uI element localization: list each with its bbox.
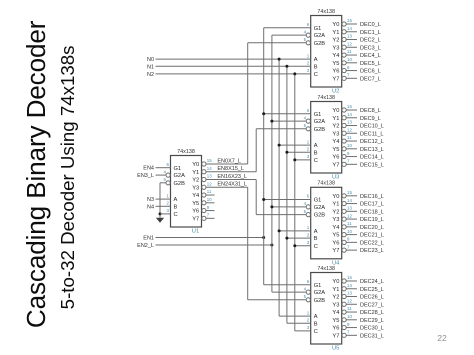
svg-text:Y5: Y5: [332, 318, 339, 324]
svg-text:B: B: [174, 204, 178, 210]
wire EN2_L to U2.G2A: [272, 34, 306, 36]
inversion bubble on Y7 of U1: [202, 216, 206, 220]
svg-text:14: 14: [347, 26, 352, 31]
inversion bubble on Y5 of U2: [342, 61, 346, 65]
junction N2 / U4.C: [293, 244, 296, 247]
svg-text:6: 6: [307, 194, 310, 199]
svg-text:1: 1: [307, 139, 310, 144]
svg-text:B: B: [314, 64, 318, 70]
svg-text:6: 6: [307, 279, 310, 284]
stub wire U3.Y7: [346, 163, 357, 165]
svg-text:Y7: Y7: [332, 76, 339, 82]
svg-text:DEC22_L: DEC22_L: [360, 240, 384, 246]
wire N3 to U1.A: [156, 198, 171, 200]
svg-text:2: 2: [307, 318, 310, 323]
wire EN1 to U5.G1: [264, 284, 311, 286]
wire EN1 to U3.G1: [264, 113, 311, 115]
inversion bubble on G2A of U4: [306, 205, 310, 209]
svg-text:10: 10: [347, 57, 352, 62]
svg-text:11: 11: [347, 135, 352, 140]
svg-text:N0: N0: [147, 57, 154, 63]
decoder U4 74x138: [311, 187, 342, 258]
wire EN2_L vertical bus: [271, 35, 273, 292]
decoder U3 74x138: [311, 102, 342, 174]
svg-text:Y2: Y2: [332, 124, 339, 130]
svg-text:G1: G1: [314, 198, 322, 204]
svg-text:DEC20_L: DEC20_L: [360, 225, 384, 231]
svg-text:4: 4: [163, 169, 166, 174]
svg-text:DEC13_L: DEC13_L: [360, 147, 384, 153]
inversion bubble on Y6 of U1: [202, 208, 206, 212]
svg-text:DEC24_L: DEC24_L: [360, 279, 384, 285]
wire EN16X23_L from U1.Y2: [206, 179, 256, 181]
svg-text:DEC8_L: DEC8_L: [360, 108, 381, 114]
inversion bubble on Y7 of U4: [342, 248, 346, 252]
svg-text:A: A: [314, 314, 318, 320]
wire U1.C to ground: [160, 213, 171, 215]
svg-text:6: 6: [167, 162, 170, 167]
svg-text:13: 13: [347, 34, 352, 39]
wire EN2_L horizontal: [156, 244, 272, 246]
svg-text:G2A: G2A: [314, 33, 326, 39]
svg-text:DEC28_L: DEC28_L: [360, 310, 384, 316]
svg-text:7: 7: [347, 73, 350, 78]
svg-text:A: A: [314, 143, 318, 149]
inversion bubble on Y4 of U3: [342, 139, 346, 143]
wire enable to U5.G2B: [248, 299, 307, 301]
svg-text:N4: N4: [147, 204, 154, 210]
svg-text:DEC19_L: DEC19_L: [360, 217, 384, 223]
svg-text:A: A: [174, 197, 178, 203]
stub wire U2.Y0: [346, 23, 357, 25]
svg-text:G1: G1: [314, 112, 322, 118]
inversion bubble on Y2 of U4: [342, 209, 346, 213]
svg-text:Y0: Y0: [332, 194, 339, 200]
svg-text:DEC16_L: DEC16_L: [360, 194, 384, 200]
svg-text:C: C: [314, 244, 318, 250]
junction EN2_L / bus: [270, 244, 273, 247]
svg-text:15: 15: [207, 158, 212, 163]
svg-text:3: 3: [307, 68, 310, 73]
svg-text:G2A: G2A: [314, 205, 326, 211]
svg-text:3: 3: [307, 240, 310, 245]
svg-text:DEC14_L: DEC14_L: [360, 155, 384, 161]
wire N2 to U3.C: [295, 159, 311, 161]
wire N0 to U3.A: [279, 144, 311, 146]
wire EN2_L to U3.G2A: [272, 120, 306, 122]
wire EN8X15_L from U1.Y1: [206, 171, 256, 173]
inversion bubble on Y5 of U3: [342, 147, 346, 151]
wire N0 horizontal to U2.A: [156, 58, 311, 60]
wire EN3_L to U1.G2A: [156, 174, 167, 176]
svg-text:EN4: EN4: [143, 166, 154, 172]
inversion bubble on G2B of U3: [306, 127, 310, 131]
stub wire U1.Y5: [206, 202, 215, 204]
svg-text:DEC7_L: DEC7_L: [360, 76, 381, 82]
stub wire U5.Y6: [346, 327, 357, 329]
svg-text:15: 15: [347, 104, 352, 109]
inversion bubble on Y6 of U2: [342, 68, 346, 72]
inversion bubble on Y3 of U1: [202, 185, 206, 189]
svg-text:4: 4: [304, 286, 307, 291]
wire EN1 vertical bus: [263, 28, 265, 285]
stub wire U2.Y2: [346, 39, 357, 41]
svg-text:DEC6_L: DEC6_L: [360, 69, 381, 75]
wire N2 to U4.C: [295, 245, 311, 247]
inversion bubble on G2B of U2: [306, 41, 310, 45]
svg-text:4: 4: [304, 201, 307, 206]
svg-text:7: 7: [347, 159, 350, 164]
inversion bubble on G2B of U5: [306, 298, 310, 302]
svg-text:DEC9_L: DEC9_L: [360, 116, 381, 122]
svg-text:DEC11_L: DEC11_L: [360, 131, 383, 137]
svg-text:Y5: Y5: [332, 61, 339, 67]
svg-text:Y1: Y1: [332, 116, 339, 122]
wire N1 vertical bus: [286, 66, 288, 323]
svg-text:9: 9: [347, 151, 350, 156]
stub wire U4.Y0: [346, 195, 357, 197]
svg-text:EN1: EN1: [143, 236, 154, 242]
svg-text:Y0: Y0: [332, 22, 339, 28]
stub wire U2.Y6: [346, 70, 357, 72]
inversion bubble on Y1 of U3: [342, 116, 346, 120]
ground symbol: [157, 218, 164, 222]
svg-text:5: 5: [304, 294, 307, 299]
svg-text:2: 2: [307, 147, 310, 152]
svg-text:12: 12: [207, 181, 212, 186]
svg-text:G2B: G2B: [314, 298, 326, 304]
svg-text:9: 9: [347, 237, 350, 242]
stub wire U5.Y7: [346, 334, 357, 336]
svg-text:12: 12: [347, 127, 352, 132]
svg-text:Y2: Y2: [192, 178, 199, 184]
svg-text:10: 10: [347, 314, 352, 319]
svg-text:4: 4: [304, 29, 307, 34]
svg-text:DEC26_L: DEC26_L: [360, 295, 384, 301]
svg-text:74x138: 74x138: [177, 149, 195, 155]
inversion bubble on Y4 of U5: [342, 310, 346, 314]
stub wire U4.Y4: [346, 226, 357, 228]
svg-text:10: 10: [347, 229, 352, 234]
svg-text:12: 12: [347, 298, 352, 303]
svg-text:Y2: Y2: [332, 295, 339, 301]
stub wire U4.Y1: [346, 203, 357, 205]
inversion bubble on Y1 of U1: [202, 170, 206, 174]
decoder U2 74x138: [311, 16, 342, 88]
svg-text:1: 1: [167, 193, 170, 198]
svg-text:EN3_L: EN3_L: [137, 173, 154, 179]
svg-text:9: 9: [207, 205, 210, 210]
inversion bubble on Y3 of U3: [342, 131, 346, 135]
svg-text:Y4: Y4: [332, 225, 339, 231]
junction N2 / U3.C: [293, 158, 296, 161]
inversion bubble on Y3 of U4: [342, 217, 346, 221]
svg-text:Y3: Y3: [332, 45, 339, 51]
svg-text:74x138: 74x138: [317, 9, 335, 15]
svg-text:10: 10: [347, 143, 352, 148]
svg-text:4: 4: [304, 115, 307, 120]
inversion bubble on Y1 of U2: [342, 30, 346, 34]
wire EN4 to U1.G1: [156, 167, 171, 169]
svg-text:Y1: Y1: [332, 30, 339, 36]
svg-text:DEC15_L: DEC15_L: [360, 162, 384, 168]
svg-text:DEC3_L: DEC3_L: [360, 45, 381, 51]
stub wire U2.Y7: [346, 77, 357, 79]
svg-text:15: 15: [347, 275, 352, 280]
svg-text:U2: U2: [332, 89, 339, 95]
svg-text:9: 9: [347, 322, 350, 327]
inversion bubble on Y0 of U5: [342, 279, 346, 283]
svg-text:DEC0_L: DEC0_L: [360, 22, 381, 28]
stub wire U2.Y4: [346, 54, 357, 56]
svg-text:6: 6: [307, 22, 310, 27]
inversion bubble on Y0 of U4: [342, 194, 346, 198]
svg-text:7: 7: [207, 213, 210, 218]
stub wire U3.Y4: [346, 140, 357, 142]
inversion bubble on Y4 of U4: [342, 225, 346, 229]
inversion bubble on Y4 of U1: [202, 193, 206, 197]
wire EN16X23_L vertical (to U4.G2B): [255, 180, 257, 215]
junction N1 top: [285, 65, 288, 68]
junction N0 / U4.A: [278, 229, 281, 232]
svg-text:EN2_L: EN2_L: [137, 243, 154, 249]
svg-text:DEC25_L: DEC25_L: [360, 287, 384, 293]
svg-text:C: C: [314, 158, 318, 164]
svg-text:DEC17_L: DEC17_L: [360, 202, 384, 208]
inversion bubble on Y0 of U1: [202, 162, 206, 166]
wire EN0X7_L vertical (to U2.G2B): [247, 43, 249, 164]
svg-text:U1: U1: [192, 229, 199, 235]
inversion bubble on G2A of U5: [306, 290, 310, 294]
wire N4 to U1.B: [156, 205, 171, 207]
wire N0 to U4.A: [279, 230, 311, 232]
inversion bubble on G2B of U4: [306, 213, 310, 217]
wire N1 to U3.B: [287, 151, 311, 153]
svg-text:B: B: [314, 150, 318, 156]
svg-text:G2B: G2B: [314, 213, 326, 219]
wire EN1 to U2.G1: [264, 27, 311, 29]
stub wire U2.Y1: [346, 31, 357, 33]
inversion bubble on Y2 of U3: [342, 123, 346, 127]
svg-text:EN8X15_L: EN8X15_L: [217, 166, 244, 172]
svg-text:5-to-32 Decoder Using 74x138s: 5-to-32 Decoder Using 74x138s: [57, 45, 78, 309]
inversion bubble on Y6 of U5: [342, 325, 346, 329]
stub wire U3.Y6: [346, 156, 357, 158]
svg-text:Y7: Y7: [332, 333, 339, 339]
svg-text:G2A: G2A: [314, 119, 326, 125]
svg-text:Y6: Y6: [332, 69, 339, 75]
svg-text:EN16X23_L: EN16X23_L: [217, 174, 247, 180]
junction EN2_L / U4.G2A: [270, 205, 273, 208]
svg-text:C: C: [174, 212, 178, 218]
svg-text:Y1: Y1: [332, 287, 339, 293]
svg-text:G2A: G2A: [314, 290, 326, 296]
wire EN8X15_L vertical (to U3.G2B): [255, 129, 257, 172]
svg-text:Y4: Y4: [332, 310, 339, 316]
wire N2 vertical bus: [294, 74, 296, 331]
svg-text:Y3: Y3: [192, 185, 199, 191]
svg-text:14: 14: [347, 198, 352, 203]
wire EN0X7_L from U1.Y0: [206, 163, 248, 165]
stub wire U3.Y3: [346, 132, 357, 134]
stub wire U4.Y6: [346, 241, 357, 243]
inversion bubble on Y0 of U3: [342, 108, 346, 112]
inversion bubble on Y5 of U5: [342, 318, 346, 322]
svg-text:Y3: Y3: [332, 131, 339, 137]
svg-text:6: 6: [307, 108, 310, 113]
decoder U5 74x138: [311, 273, 342, 345]
inversion bubble on Y4 of U2: [342, 53, 346, 57]
svg-text:Cascading Binary Decoder: Cascading Binary Decoder: [21, 20, 51, 328]
svg-text:10: 10: [207, 197, 212, 202]
junction N1 / U3.B: [285, 151, 288, 154]
wire N0 vertical bus: [278, 59, 280, 316]
junction N0 top: [278, 58, 281, 61]
svg-text:DEC12_L: DEC12_L: [360, 139, 384, 145]
wire EN1 to U4.G1: [264, 199, 311, 201]
svg-text:N3: N3: [147, 197, 154, 203]
svg-text:14: 14: [347, 112, 352, 117]
svg-text:Y5: Y5: [332, 147, 339, 153]
svg-text:Y7: Y7: [192, 216, 199, 222]
stub wire U4.Y5: [346, 234, 357, 236]
inversion bubble on Y2 of U2: [342, 37, 346, 41]
wire EN2_L to U5.G2A: [272, 291, 306, 293]
svg-text:Y0: Y0: [192, 162, 199, 168]
inversion bubble on Y7 of U2: [342, 76, 346, 80]
svg-text:Y0: Y0: [332, 108, 339, 114]
inversion bubble on G2A of U1: [166, 173, 170, 177]
wire EN1 horizontal: [156, 237, 264, 239]
wire EN2_L to U4.G2A: [272, 206, 306, 208]
wire U1.G2B to ground (vertical): [159, 183, 161, 218]
svg-text:B: B: [314, 321, 318, 327]
inversion bubble on Y7 of U5: [342, 333, 346, 337]
svg-text:DEC21_L: DEC21_L: [360, 233, 384, 239]
svg-text:3: 3: [307, 154, 310, 159]
wire U1.G2B to ground (horizontal): [160, 182, 166, 184]
stub wire U3.Y2: [346, 125, 357, 127]
svg-text:Y2: Y2: [332, 209, 339, 215]
svg-text:DEC2_L: DEC2_L: [360, 38, 381, 44]
stub wire U3.Y0: [346, 109, 357, 111]
inversion bubble on Y3 of U5: [342, 302, 346, 306]
inversion bubble on Y6 of U4: [342, 240, 346, 244]
inversion bubble on G2A of U2: [306, 33, 310, 37]
stub wire U3.Y5: [346, 148, 357, 150]
svg-text:5: 5: [304, 209, 307, 214]
svg-text:Y3: Y3: [332, 302, 339, 308]
svg-text:5: 5: [304, 123, 307, 128]
inversion bubble on Y6 of U3: [342, 154, 346, 158]
junction U1.C / ground: [159, 212, 162, 215]
decoder U1 74x138: [171, 156, 202, 228]
inversion bubble on Y2 of U1: [202, 177, 206, 181]
svg-text:74x138: 74x138: [317, 266, 335, 272]
svg-text:Y4: Y4: [332, 139, 339, 145]
svg-text:15: 15: [347, 190, 352, 195]
svg-text:11: 11: [347, 221, 352, 226]
svg-text:1: 1: [307, 310, 310, 315]
svg-text:13: 13: [207, 174, 212, 179]
svg-text:7: 7: [347, 330, 350, 335]
junction EN1 / U3.G1: [262, 112, 265, 115]
svg-text:N1: N1: [147, 64, 154, 70]
svg-text:11: 11: [207, 189, 212, 194]
stub wire U5.Y0: [346, 280, 357, 282]
svg-text:Y1: Y1: [192, 170, 199, 176]
svg-text:G2B: G2B: [174, 181, 186, 187]
svg-text:EN0X7_L: EN0X7_L: [217, 158, 241, 164]
stub wire U4.Y7: [346, 249, 357, 251]
svg-text:G1: G1: [174, 166, 182, 172]
svg-text:DEC1_L: DEC1_L: [360, 30, 381, 36]
junction N1 / U4.B: [285, 237, 288, 240]
svg-text:Y1: Y1: [332, 202, 339, 208]
svg-text:9: 9: [347, 65, 350, 70]
svg-text:A: A: [314, 57, 318, 63]
inversion bubble on G2B of U1: [166, 181, 170, 185]
svg-text:C: C: [314, 329, 318, 335]
svg-text:Y2: Y2: [332, 38, 339, 44]
svg-text:Y6: Y6: [332, 240, 339, 246]
stub wire U1.Y7: [206, 217, 215, 219]
svg-text:3: 3: [307, 325, 310, 330]
svg-text:EN24X31_L: EN24X31_L: [217, 182, 247, 188]
svg-text:U3: U3: [332, 175, 339, 181]
wire N1 to U5.B: [287, 322, 311, 324]
svg-text:B: B: [314, 236, 318, 242]
inversion bubble on Y1 of U4: [342, 201, 346, 205]
svg-text:Y7: Y7: [332, 162, 339, 168]
svg-text:DEC10_L: DEC10_L: [360, 124, 384, 130]
svg-text:Y7: Y7: [332, 248, 339, 254]
svg-text:12: 12: [347, 213, 352, 218]
stub wire U5.Y3: [346, 303, 357, 305]
svg-text:G2B: G2B: [314, 127, 326, 133]
stub wire U5.Y5: [346, 319, 357, 321]
svg-text:13: 13: [347, 206, 352, 211]
wire N0 to U5.A: [279, 315, 311, 317]
wire EN24X31_L vertical (to U5.G2B): [247, 187, 249, 300]
svg-text:N2: N2: [147, 72, 154, 78]
svg-text:Y4: Y4: [192, 193, 199, 199]
svg-text:DEC31_L: DEC31_L: [360, 333, 384, 339]
wire enable to U2.G2B: [248, 42, 307, 44]
svg-text:U5: U5: [332, 346, 339, 352]
stub wire U1.Y4: [206, 194, 215, 196]
svg-text:DEC23_L: DEC23_L: [360, 248, 384, 254]
svg-text:11: 11: [347, 306, 352, 311]
junction EN1 / bus: [262, 236, 265, 239]
wire EN24X31_L from U1.Y3: [206, 186, 248, 188]
svg-text:14: 14: [347, 283, 352, 288]
svg-text:DEC29_L: DEC29_L: [360, 318, 384, 324]
inversion bubble on Y1 of U5: [342, 287, 346, 291]
wire N2 horizontal to U2.C: [156, 73, 311, 75]
stub wire U2.Y5: [346, 62, 357, 64]
junction EN2_L / U3.G2A: [270, 120, 273, 123]
inversion bubble on Y5 of U4: [342, 233, 346, 237]
svg-text:7: 7: [347, 244, 350, 249]
svg-text:Y5: Y5: [332, 233, 339, 239]
svg-text:DEC4_L: DEC4_L: [360, 53, 381, 59]
svg-text:Y0: Y0: [332, 279, 339, 285]
inversion bubble on G2A of U3: [306, 119, 310, 123]
svg-text:5: 5: [304, 37, 307, 42]
svg-text:G2A: G2A: [174, 173, 186, 179]
stub wire U3.Y1: [346, 117, 357, 119]
